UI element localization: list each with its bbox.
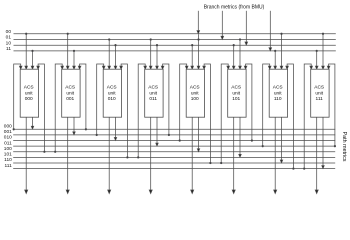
svg-text:10: 10 [6,40,12,46]
svg-text:010: 010 [108,96,116,102]
svg-text:ACS: ACS [273,84,283,90]
svg-text:111: 111 [5,163,13,169]
svg-text:unit: unit [232,90,240,96]
wire: path metric input, line 110 up to right input of ACS unit 100 [204,64,210,163]
wire: branch metric tap from line 10 into ACS unit 100 [191,45,193,66]
wire: branch metric tap from line 00 into ACS unit 001 [67,34,69,67]
wire: branch metric tap from line 10 into ACS unit 101 [233,45,235,66]
svg-text:001: 001 [66,96,74,102]
svg-text:011: 011 [4,140,12,146]
wire: new path metric output of ACS unit 000 onto line 000 [32,117,34,127]
svg-text:101: 101 [4,152,12,158]
wire: branch metric tap from line 00 into ACS unit 000 [25,34,27,67]
wire: path metric input, line 111 up to right input of ACS unit 110 [287,64,293,169]
wire: branch metric tap from line 10 into ACS unit 010 [115,45,117,66]
ACS unit 110 box [269,69,287,117]
svg-text:100: 100 [191,96,199,102]
wire: branch metric input arrow from BMU to line 11 [269,11,271,49]
wire: path metric input, line 010 up to left input of ACS unit 100 [180,64,187,141]
wire: decision output of ACS unit 001 to survivor memory [67,117,69,190]
path metric bus line 001 [13,134,335,136]
svg-text:unit: unit [108,90,116,96]
wire: path metric input, line 001 up to left input of ACS unit 010 [97,64,104,135]
svg-text:ACS: ACS [314,84,324,90]
wire: branch metric input arrow from BMU to line 00 [197,11,199,31]
wire: branch metric tap from line 00 into ACS unit 111 [322,34,324,67]
svg-text:Path metrics: Path metrics [341,132,347,162]
path metric bus line 111 [13,168,335,170]
wire: new path metric output of ACS unit 001 onto line 001 [73,117,75,132]
path metric bus line 000 [13,128,335,130]
wire: branch metric input arrow from BMU to line 10 [245,11,247,43]
wire: branch metric tap from line 00 into ACS unit 110 [281,34,283,67]
svg-text:unit: unit [315,90,323,96]
wire: branch metric tap from line 11 into ACS unit 001 [73,51,75,67]
ACS unit 101 box [228,69,246,117]
ACS unit 010 box [103,69,121,117]
wire: path metric input, line 101 up to left input of ACS unit 011 [138,64,145,157]
wire: path metric input, line 100 up to left input of ACS unit 001 [55,64,62,152]
wire: decision output of ACS unit 111 to survivor memory [316,117,318,190]
wire: path metric input, line 100 up to right input of ACS unit 000 [38,64,44,152]
branch metric bus line 00 [14,33,336,35]
wire: path metric input, line 010 up to right input of ACS unit 101 [246,64,252,141]
wire: decision output of ACS unit 010 to survivor memory [108,117,110,190]
wire: decision output of ACS unit 000 to survivor memory [25,117,27,190]
wire: decision output of ACS unit 101 to survivor memory [233,117,235,190]
wire: path metric input, line 111 up to left input of ACS unit 111 [304,64,311,169]
path metric bus line 100 [13,151,335,153]
svg-text:ACS: ACS [231,84,241,90]
branch metric bus line 01 [14,39,336,41]
svg-text:111: 111 [316,96,324,102]
wire: decision output of ACS unit 110 to survivor memory [274,117,276,190]
svg-text:110: 110 [274,96,282,102]
wire: decision output of ACS unit 011 to survivor memory [150,117,152,190]
svg-text:unit: unit [66,90,74,96]
svg-text:011: 011 [149,96,157,102]
svg-text:00: 00 [6,29,12,35]
svg-text:ACS: ACS [190,84,200,90]
wire: path metric input, line 110 up to left input of ACS unit 101 [221,64,228,163]
wire: new path metric output of ACS unit 010 onto line 010 [115,117,117,138]
path metric bus line 110 [13,162,335,164]
svg-text:unit: unit [274,90,282,96]
wire: path metric input, line 000 up to right input of ACS unit 001 [80,64,86,129]
svg-text:unit: unit [191,90,199,96]
ACS unit 100 box [186,69,204,117]
wire: decision output of ACS unit 100 to survivor memory [191,117,193,190]
wire: branch metric tap from line 01 into ACS unit 011 [150,40,152,67]
svg-text:unit: unit [149,90,157,96]
path metric bus line 011 [13,145,335,147]
svg-text:000: 000 [4,124,12,130]
ACS unit 001 box [62,69,80,117]
svg-text:01: 01 [6,35,12,41]
branch metric bus line 11 [14,50,336,52]
branch metric bus line 10 [14,44,336,46]
wire: branch metric tap from line 11 into ACS unit 110 [274,51,276,67]
wire: path metric input, line 011 up to left input of ACS unit 110 [263,64,270,146]
svg-text:11: 11 [6,46,11,52]
wire: new path metric output of ACS unit 110 onto line 110 [281,117,283,160]
svg-text:100: 100 [4,146,12,152]
svg-text:unit: unit [25,90,33,96]
wire: branch metric tap from line 01 into ACS unit 100 [198,34,200,66]
svg-text:ACS: ACS [65,84,75,90]
svg-text:110: 110 [4,157,12,163]
path metric bus line 101 [13,156,335,158]
svg-text:101: 101 [232,96,240,102]
wire: branch metric tap from line 11 into ACS unit 111 [316,51,318,67]
wire: branch metric tap from line 01 into ACS unit 010 [108,40,110,67]
wire: branch metric tap from line 11 into ACS unit 000 [32,51,34,67]
svg-text:000: 000 [25,96,33,102]
wire: path metric input, line 101 up to right input of ACS unit 010 [121,64,127,157]
svg-text:ACS: ACS [148,84,158,90]
ACS unit 000 box [20,69,38,117]
svg-text:ACS: ACS [107,84,117,90]
wire: branch metric input arrow from BMU to line 01 [221,11,223,37]
svg-text:001: 001 [4,129,12,135]
svg-text:ACS: ACS [24,84,34,90]
path metric bus line 010 [13,140,335,142]
wire: path metric input, line 011 up to right input of ACS unit 111 [329,64,335,146]
svg-text:010: 010 [4,135,12,141]
svg-text:Branch metrics (from BMU): Branch metrics (from BMU) [204,4,265,10]
wire: branch metric tap from line 01 into ACS unit 101 [239,40,241,67]
wire: path metric input, line 000 up to left input of ACS unit 000 [14,64,21,129]
wire: new path metric output of ACS unit 101 onto line 101 [239,117,241,155]
wire: branch metric tap from line 10 into ACS unit 011 [156,45,158,66]
wire: new path metric output of ACS unit 111 onto line 111 [322,117,324,166]
wire: new path metric output of ACS unit 011 onto line 011 [156,117,158,143]
wire: new path metric output of ACS unit 100 onto line 100 [198,117,200,149]
wire: path metric input, line 001 up to right input of ACS unit 011 [163,64,169,135]
ACS unit 111 box [311,69,329,117]
ACS unit 011 box [145,69,163,117]
